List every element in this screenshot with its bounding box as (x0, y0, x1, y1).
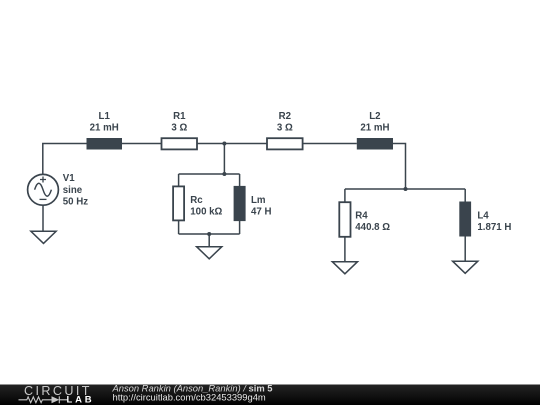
svg-text:100 kΩ: 100 kΩ (190, 207, 222, 218)
svg-text:50 Hz: 50 Hz (63, 197, 88, 208)
svg-text:47 H: 47 H (251, 207, 271, 218)
svg-text:440.8 Ω: 440.8 Ω (355, 222, 390, 233)
svg-text:Lm: Lm (251, 195, 266, 206)
svg-text:R1: R1 (173, 111, 186, 122)
svg-text:3 Ω: 3 Ω (171, 123, 187, 134)
svg-text:sine: sine (63, 185, 83, 196)
svg-text:1.871 H: 1.871 H (477, 222, 511, 233)
svg-text:L1: L1 (99, 111, 111, 122)
svg-text:R4: R4 (355, 211, 368, 222)
svg-text:V1: V1 (63, 173, 75, 184)
svg-text:LAB: LAB (67, 395, 95, 405)
svg-text:21 mH: 21 mH (90, 123, 119, 134)
svg-text:3 Ω: 3 Ω (277, 123, 293, 134)
svg-text:R2: R2 (279, 111, 291, 122)
svg-text:21 mH: 21 mH (360, 123, 389, 134)
svg-text:http://circuitlab.com/cb324533: http://circuitlab.com/cb32453399g4m (113, 392, 266, 403)
svg-text:L4: L4 (477, 211, 489, 222)
svg-text:L2: L2 (369, 111, 380, 122)
svg-text:Rc: Rc (190, 195, 203, 206)
